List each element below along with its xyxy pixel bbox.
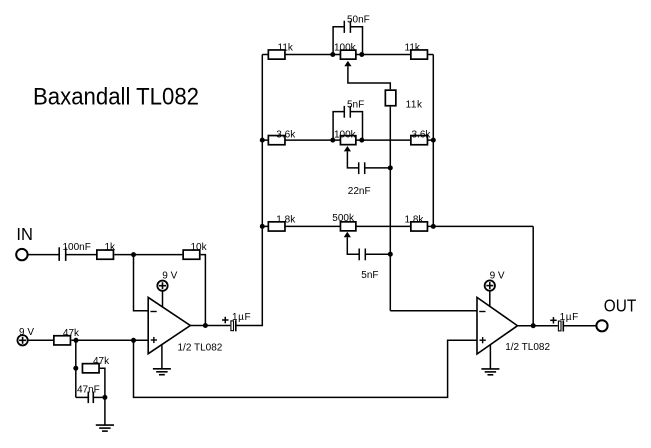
node 47k junction <box>74 338 79 343</box>
op-amp U1A left <box>148 297 223 353</box>
node input summing <box>131 252 136 257</box>
node output right <box>531 323 536 328</box>
svg-text:11k: 11k <box>405 43 421 54</box>
wire left rail vertical <box>236 55 263 326</box>
svg-text:5nF: 5nF <box>361 270 378 281</box>
svg-text:100nF: 100nF <box>63 242 91 253</box>
svg-text:IN: IN <box>16 224 33 244</box>
svg-text:100k: 100k <box>334 129 357 140</box>
wire opamp right output <box>518 325 558 327</box>
svg-text:3.6k: 3.6k <box>412 129 432 140</box>
wire right rail vertical <box>432 55 434 227</box>
wire feedback right vertical <box>532 226 534 325</box>
wire IN to 100nF <box>28 254 58 256</box>
node row3 rail left <box>260 224 265 229</box>
node row2 rail right <box>431 138 436 143</box>
svg-text:22nF: 22nF <box>348 186 371 197</box>
capacitor 22nF wiper row2 <box>348 162 391 197</box>
wire 47k node down <box>75 340 77 397</box>
svg-text:1k: 1k <box>105 242 117 253</box>
svg-text:1µF: 1µF <box>232 312 251 323</box>
capacitor 1uF right polarized <box>550 312 579 331</box>
svg-text:47k: 47k <box>63 328 80 339</box>
resistor 1k <box>97 242 116 259</box>
resistor 47k lower <box>82 356 110 373</box>
wire 47k to plus node <box>71 339 148 341</box>
wire row1 horizontal <box>262 54 433 56</box>
node 22nF to 11k line <box>388 165 393 170</box>
wire row2 horizontal <box>262 139 433 141</box>
OUT port <box>596 295 636 331</box>
power 9V left opamp <box>157 270 177 307</box>
resistor 1.8k row3 right <box>405 214 428 231</box>
svg-text:Baxandall TL082: Baxandall TL082 <box>33 84 199 111</box>
potentiometer 100k row2 <box>334 129 359 168</box>
wire node to minus input left opamp <box>134 255 149 311</box>
ground left opamp <box>153 345 171 375</box>
resistor 11k row1 left <box>268 43 294 60</box>
svg-text:1/2 TL082: 1/2 TL082 <box>505 342 550 353</box>
svg-text:50nF: 50nF <box>347 15 370 26</box>
svg-text:11k: 11k <box>406 100 423 111</box>
resistor 1.8k row3 left <box>268 214 296 231</box>
node feedback output <box>203 323 208 328</box>
svg-text:10k: 10k <box>191 242 208 253</box>
svg-text:47nF: 47nF <box>77 385 100 396</box>
ground right opamp <box>481 345 499 375</box>
node row2 pot left <box>330 138 335 143</box>
capacitor 1uF left polarized <box>222 312 251 331</box>
svg-text:OUT: OUT <box>604 295 637 315</box>
node row1 pot left <box>330 52 335 57</box>
node 47k lower junction <box>73 366 78 371</box>
potentiometer 500k row3 <box>332 213 359 254</box>
resistor 11k row1 right <box>405 43 428 60</box>
svg-text:1.8k: 1.8k <box>276 214 296 225</box>
resistor 47k bias <box>54 328 80 345</box>
node row2 rail left <box>260 138 265 143</box>
op-amp U1B right <box>477 297 550 354</box>
wire 47k lower to 47nF node <box>100 368 105 397</box>
power 9V right opamp <box>485 270 505 306</box>
resistor 3.6k row2 left <box>268 129 296 144</box>
svg-text:5nF: 5nF <box>347 99 364 110</box>
capacitor 50nF row1 <box>333 15 370 55</box>
wire plus node down to bottom rail <box>134 340 478 397</box>
svg-text:9 V: 9 V <box>490 270 505 281</box>
node 5nF to 11k line <box>388 252 393 257</box>
wire minus input right opamp <box>390 310 477 312</box>
wire 10k to output node <box>201 255 206 326</box>
capacitor 5nF wiper row3 <box>359 249 390 282</box>
resistor 10k feedback <box>183 242 207 259</box>
capacitor 5nF row2 top <box>333 99 364 140</box>
svg-text:100k: 100k <box>334 43 357 54</box>
wire row3 horizontal <box>262 225 533 227</box>
svg-text:47k: 47k <box>93 356 110 367</box>
capacitor 100nF <box>59 242 96 261</box>
ground 47nF <box>96 425 114 431</box>
node 47nF right junction <box>102 395 107 400</box>
svg-text:11k: 11k <box>278 43 294 54</box>
resistor 11k vertical <box>385 90 423 311</box>
node row3 rail right <box>431 224 436 229</box>
wire 1k to 10k <box>114 254 182 256</box>
wire opamp left output <box>190 325 230 327</box>
node row1 pot right <box>359 52 364 57</box>
svg-text:1.8k: 1.8k <box>405 214 425 225</box>
svg-text:9 V: 9 V <box>162 270 177 281</box>
node plus input left opamp <box>131 338 136 343</box>
wire node to ground <box>104 397 106 425</box>
node row2 pot right <box>359 138 364 143</box>
svg-text:3.6k: 3.6k <box>276 129 296 140</box>
IN port <box>16 224 33 260</box>
wire 9V to 47k <box>28 339 54 341</box>
svg-text:500k: 500k <box>332 213 355 224</box>
potentiometer 100k row1 <box>334 43 390 90</box>
resistor 3.6k row2 right <box>411 129 432 144</box>
9V source port <box>17 327 34 345</box>
wire cap to OUT <box>563 325 596 327</box>
svg-text:1/2 TL082: 1/2 TL082 <box>178 343 223 354</box>
capacitor 47nF <box>76 385 105 404</box>
svg-text:1µF: 1µF <box>560 312 579 323</box>
